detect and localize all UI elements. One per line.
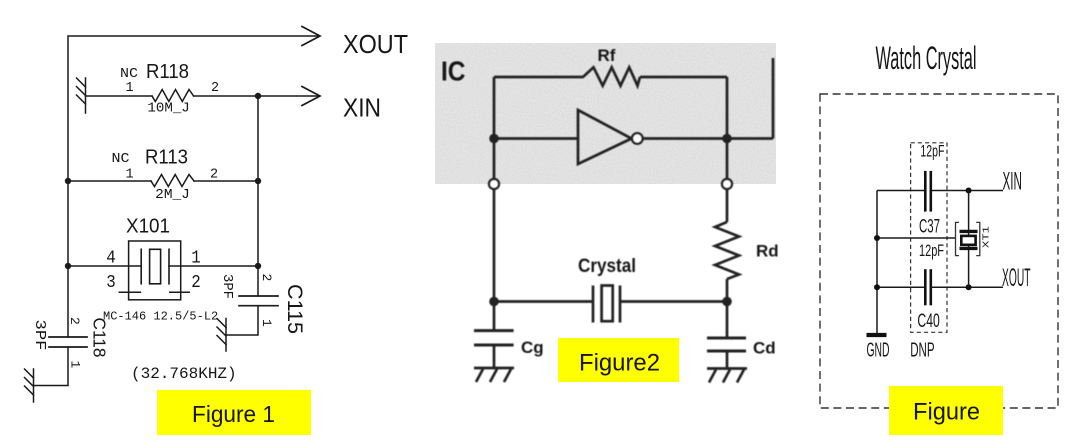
wire: C118 pin1 to ground <box>34 347 69 386</box>
wire: Rf top left <box>494 76 584 79</box>
junction dot right bus / X101 <box>255 263 261 269</box>
junction dot gnd bus / middle stub <box>874 235 880 241</box>
svg-text:2: 2 <box>211 81 219 96</box>
junction dot right bus / R113 <box>255 178 261 184</box>
svg-text:R118: R118 <box>146 61 189 83</box>
IC shaded region <box>435 43 776 184</box>
X101 crystal plates <box>140 249 142 283</box>
capacitor Cd <box>726 302 729 339</box>
svg-text:Figure: Figure <box>913 399 980 426</box>
IC pin circle right <box>722 179 732 189</box>
wire: R118 pin2 to XIN arrow <box>194 95 318 97</box>
svg-text:3: 3 <box>106 273 116 293</box>
wire: R113 row <box>68 180 151 182</box>
IC pin circle left <box>489 179 499 189</box>
ground (Cd) <box>707 369 747 383</box>
svg-text:Watch Crystal: Watch Crystal <box>876 40 977 76</box>
crystal X101 body box <box>129 241 181 300</box>
arrow XOUT port <box>302 27 320 46</box>
wire: inverter output <box>643 137 773 140</box>
svg-text:IC: IC <box>441 56 466 87</box>
svg-text:12pF: 12pF <box>920 142 944 161</box>
capacitor C115 <box>239 295 278 297</box>
X101 pin3/pin2 stubs <box>119 291 140 293</box>
svg-text:Figure 1: Figure 1 <box>192 401 275 427</box>
crystal element (Figure 2) <box>592 286 595 323</box>
svg-text:C118: C118 <box>90 318 110 358</box>
wire: XIN row <box>877 190 925 192</box>
junction dot gnd bus / XOUT row <box>874 284 880 290</box>
crystal dashed brackets <box>956 222 960 255</box>
junction dot XIN/right bus <box>255 93 261 99</box>
wire: XOUT row <box>877 286 925 288</box>
capacitor C118 <box>49 336 87 338</box>
wire: right down to Rd <box>726 189 729 222</box>
wire: Rd to Cd node <box>726 279 729 302</box>
wire: right bus vertical <box>257 96 259 296</box>
svg-text:XOUT: XOUT <box>343 29 408 59</box>
wire: feedback loop left vertical <box>493 77 496 180</box>
resistor R113 <box>151 175 194 187</box>
wire: crystal vertical XIN-XOUT <box>968 191 970 288</box>
svg-text:DNP: DNP <box>910 340 934 362</box>
svg-text:10M_J: 10M_J <box>147 102 189 117</box>
svg-text:NC: NC <box>112 152 130 167</box>
svg-text:Cd: Cd <box>753 339 776 358</box>
svg-text:R113: R113 <box>145 146 188 168</box>
svg-text:C37: C37 <box>919 217 940 238</box>
crystal XT1 <box>960 230 978 233</box>
ground G1 (at R118 pin 1) <box>77 78 86 113</box>
caption Figure <box>889 386 1003 435</box>
svg-text:1: 1 <box>191 249 201 269</box>
outer dashed boundary <box>820 94 1058 408</box>
wire: Rf top right <box>640 76 727 79</box>
caption Figure 1 <box>157 390 311 435</box>
ground GND symbol <box>867 333 887 337</box>
svg-text:Cg: Cg <box>521 338 544 357</box>
resistor Rf <box>583 67 640 85</box>
svg-text:Rf: Rf <box>598 46 616 65</box>
svg-text:MC-146 12.5/5-L2: MC-146 12.5/5-L2 <box>103 310 218 324</box>
wire: middle gnd stub to crystal <box>877 237 956 239</box>
svg-text:1: 1 <box>68 361 83 369</box>
wire: X101 row right <box>169 265 258 267</box>
op-amp U1 inverter triangle <box>578 110 632 164</box>
svg-text:(32.768KHZ): (32.768KHZ) <box>131 365 237 383</box>
junction dot left bus / X101 <box>65 263 71 269</box>
junction dot XIN/crystal <box>966 188 972 194</box>
svg-text:Figure2: Figure2 <box>579 350 660 377</box>
junction dot Cg node <box>489 297 499 307</box>
svg-text:1: 1 <box>125 167 133 182</box>
capacitor Cg <box>493 302 496 331</box>
resistor R118 <box>152 90 194 102</box>
svg-text:XIN: XIN <box>343 93 381 123</box>
resistor Rd <box>715 222 739 279</box>
svg-text:Rd: Rd <box>756 242 779 261</box>
wire: XOUT net (left bus vertical + top horizontal to arrow) <box>68 36 318 337</box>
svg-text:2: 2 <box>210 167 218 182</box>
capacitor C40 <box>924 269 927 305</box>
junction dot Cd node <box>722 297 732 307</box>
wire: output stub up <box>772 58 775 139</box>
wire: GND bus vertical <box>876 191 878 335</box>
svg-text:X101: X101 <box>126 216 170 238</box>
wire: feedback loop right vertical <box>726 77 729 180</box>
dashed box around C37/C40 <box>911 143 947 332</box>
svg-text:2: 2 <box>67 317 82 325</box>
svg-text:4: 4 <box>106 249 116 269</box>
wire: crystal row right <box>620 300 727 303</box>
wire: X101 row left <box>68 265 141 267</box>
svg-text:3PF: 3PF <box>219 274 234 299</box>
wire: R113 pin2 to right bus <box>194 180 258 182</box>
arrow XIN port <box>302 87 320 106</box>
capacitor C37 <box>924 171 927 212</box>
junction dot crystal / XOUT row <box>966 284 972 290</box>
svg-text:1: 1 <box>125 81 133 96</box>
wire: inverter input <box>494 137 578 140</box>
wire: crystal row left <box>494 300 593 303</box>
svg-text:C115: C115 <box>283 284 306 334</box>
svg-text:XT1: XT1 <box>981 226 992 248</box>
ground (Cg) <box>474 368 514 382</box>
junction dot right <box>722 134 732 144</box>
svg-text:3PF: 3PF <box>31 320 48 351</box>
wire: R118 pin1 to ground <box>86 95 153 97</box>
svg-text:2: 2 <box>259 274 274 282</box>
svg-text:C40: C40 <box>917 311 939 332</box>
inverter output bubble <box>632 133 643 144</box>
caption Figure2 <box>558 338 679 382</box>
junction dot left <box>489 134 499 144</box>
svg-text:GND: GND <box>867 340 890 362</box>
ground G2 (C115) <box>217 319 226 352</box>
svg-text:Crystal: Crystal <box>578 256 636 277</box>
svg-text:NC: NC <box>120 67 138 82</box>
junction dot left bus / R113 <box>65 178 71 184</box>
svg-text:XOUT: XOUT <box>1002 264 1031 292</box>
ground G3 (C118) <box>25 369 34 402</box>
svg-text:2: 2 <box>191 273 201 293</box>
wire: C115 pin1 to ground <box>226 306 258 335</box>
wire: left down to Cg node <box>493 189 496 302</box>
svg-text:XIN: XIN <box>1003 168 1023 196</box>
svg-text:2M_J: 2M_J <box>155 188 190 203</box>
svg-text:1: 1 <box>259 319 274 327</box>
svg-text:12pF: 12pF <box>919 241 944 260</box>
